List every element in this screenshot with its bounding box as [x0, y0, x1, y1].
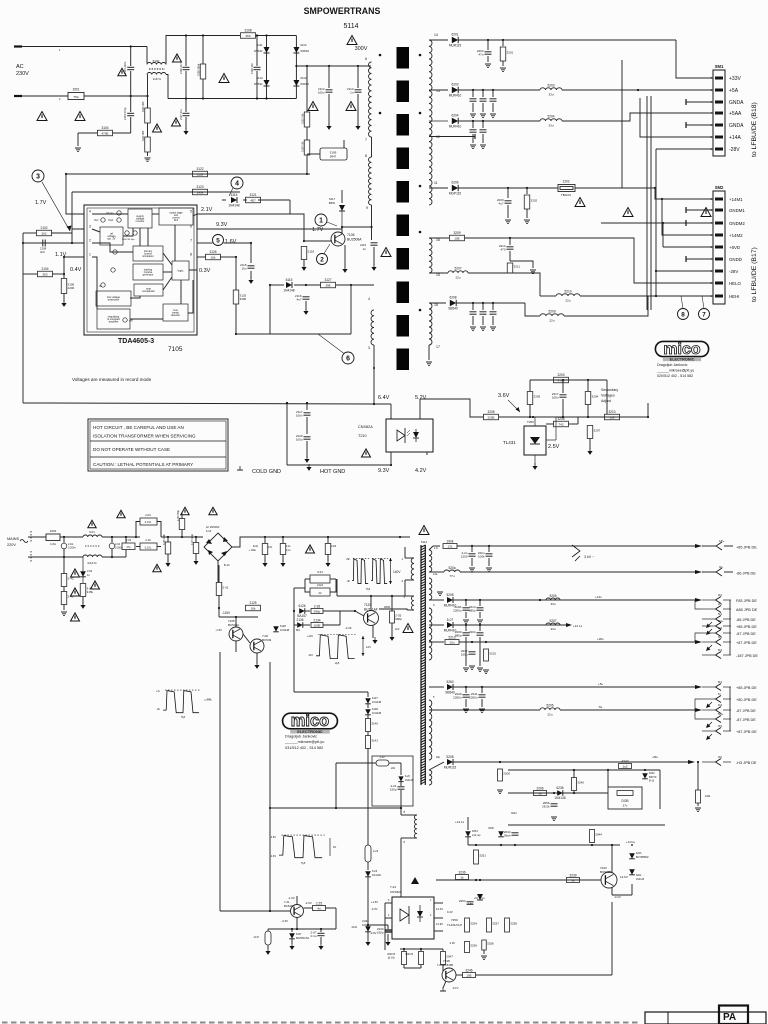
- svg-text:u/R: u/R: [129, 320, 133, 323]
- svg-text:5260: 5260: [446, 680, 453, 684]
- transformer core: [397, 47, 410, 370]
- transistor Q7248 BC547B: [442, 968, 456, 982]
- svg-text:4u: 4u: [317, 906, 321, 910]
- svg-text:3: 3: [368, 346, 370, 350]
- wire stage link: [243, 634, 250, 643]
- capacitor 2232: [465, 625, 467, 631]
- wire pin9 down: [371, 205, 373, 227]
- op-amp U7105 TDA4605 outline: [84, 205, 197, 335]
- svg-text:Hy5: Hy5: [366, 588, 371, 591]
- wire 3203 left: [529, 380, 531, 391]
- arrow 3105 gnd: [61, 300, 66, 307]
- svg-text:2-02: 2-02: [126, 538, 132, 542]
- warning triangle 2135: [403, 624, 413, 633]
- svg-text:100n: 100n: [296, 414, 303, 418]
- svg-text:-2.2F: -2.2F: [345, 626, 352, 630]
- capacitor 2117: [306, 403, 308, 410]
- wire 3105 gnd: [63, 294, 65, 303]
- diode 6123: [365, 871, 371, 877]
- warning triangle 3102: [153, 124, 162, 132]
- svg-text:1N4148: 1N4148: [228, 203, 239, 207]
- arrow 2115 gnd: [248, 277, 253, 284]
- winding b-left lower: [414, 815, 417, 838]
- svg-text:2204: 2204: [469, 630, 476, 634]
- wire bridge b out right: [232, 537, 410, 547]
- svg-text:6137: 6137: [372, 696, 378, 700]
- svg-text:-86 JPB DE: -86 JPB DE: [736, 572, 756, 576]
- svg-text:10E: 10E: [454, 236, 459, 240]
- wire mid vertical 294: [293, 588, 295, 692]
- svg-text:1N4148: 1N4148: [372, 700, 382, 704]
- resistor 2118: [303, 241, 305, 246]
- wire xrails: [161, 536, 203, 538]
- wire 18 to 5209: [525, 303, 540, 316]
- svg-text:+85 JPB DE: +85 JPB DE: [736, 625, 757, 629]
- svg-text:6137: 6137: [296, 933, 302, 936]
- svg-text:3256: 3256: [470, 944, 477, 948]
- svg-text:18: 18: [434, 303, 438, 307]
- svg-text:5209: 5209: [548, 310, 555, 314]
- capacitor 2109: [193, 543, 199, 554]
- wire rail 3122: [66, 173, 310, 175]
- arrow 2107 gnd: [183, 128, 188, 135]
- svg-text:3-05 470k: 3-05 470k: [163, 534, 166, 545]
- wire pin5 line: [197, 214, 332, 241]
- capacitor 2233: [479, 625, 481, 631]
- resistor 3125: [233, 290, 246, 304]
- bridge rectifier 6100: [204, 529, 232, 567]
- block supply voltage monitor: [128, 209, 152, 228]
- svg-text:39E: 39E: [325, 283, 330, 287]
- svg-text:140V: 140V: [393, 570, 401, 574]
- warning triangle right 1: [623, 208, 633, 217]
- svg-text:5114: 5114: [421, 540, 427, 544]
- inductor 5204: [540, 115, 562, 128]
- wire fb vertical: [611, 902, 613, 975]
- circle 2: [317, 254, 328, 265]
- node bus group2: [729, 687, 731, 731]
- svg-text:6112: 6112: [300, 76, 306, 80]
- wire b-left lower: [400, 808, 402, 815]
- diode chain 6138: [367, 704, 369, 708]
- resistor 2142: [61, 574, 74, 587]
- capacitor 2203: [487, 40, 489, 50]
- svg-text:33u: 33u: [548, 123, 553, 127]
- svg-text:3102 360: 3102 360: [142, 101, 145, 112]
- svg-text:smk rep: smk rep: [472, 834, 481, 837]
- resistor 3239: [567, 873, 580, 882]
- svg-text:5206: 5206: [546, 704, 553, 708]
- wire dob return: [508, 824, 665, 826]
- wire vertical bundle 3: [650, 96, 652, 310]
- capacitor 2044: [514, 825, 516, 831]
- svg-text:TBGXA: TBGXA: [561, 193, 571, 197]
- waveform W3: [163, 690, 201, 713]
- svg-text:1u2: 1u2: [622, 764, 627, 768]
- wire b-left top: [409, 537, 411, 558]
- svg-text:5-07: 5-07: [447, 618, 454, 622]
- wire long vertical x270: [269, 662, 271, 808]
- svg-text:-87 JPB DE: -87 JPB DE: [736, 632, 756, 636]
- wire neg rail down2: [218, 596, 220, 618]
- waveform W2: [316, 634, 357, 658]
- wire 2135 top: [391, 596, 393, 611]
- wire choke2 top out: [102, 536, 140, 538]
- svg-text:0,1SL: 0,1SL: [145, 521, 152, 524]
- wire collector to transformer: [405, 580, 408, 596]
- svg-text:22: 22: [319, 591, 322, 595]
- svg-text:5203: 5203: [547, 84, 554, 88]
- svg-text:CNX82A: CNX82A: [390, 890, 402, 894]
- svg-text:262: 262: [41, 231, 46, 235]
- svg-text:BC549: BC549: [262, 638, 272, 642]
- svg-text:VGA: VGA: [108, 219, 113, 222]
- svg-text:100u: 100u: [318, 91, 325, 95]
- wire 7106b wiring: [241, 630, 250, 643]
- wire GNDD stub: [686, 258, 713, 260]
- svg-text:100u: 100u: [296, 438, 303, 442]
- svg-text:A85 JPB DE: A85 JPB DE: [736, 608, 758, 612]
- capacitor 2113: [357, 66, 359, 88]
- wire vertical bundle 2: [646, 96, 648, 310]
- resistor 2047b: [442, 949, 444, 951]
- resistor 3105: [61, 279, 74, 294]
- svg-text:9V: 9V: [333, 845, 336, 849]
- block logic: [172, 261, 189, 280]
- wire emitter stub: [337, 246, 339, 250]
- svg-text:11: 11: [434, 181, 438, 185]
- diode 6208: [448, 296, 458, 311]
- diode chain 6137: [367, 692, 369, 697]
- wire row4 tap: [429, 624, 444, 626]
- wire aux down: [373, 345, 375, 405]
- wire mains bot b: [28, 556, 83, 558]
- svg-text:7: 7: [190, 239, 192, 243]
- svg-text:2200u: 2200u: [469, 696, 478, 700]
- svg-text:-2.9V: -2.9V: [370, 931, 377, 935]
- svg-text:2: 2: [89, 239, 91, 243]
- svg-text:1.7V: 1.7V: [312, 227, 324, 233]
- svg-text:3 kV ~: 3 kV ~: [584, 555, 594, 559]
- svg-text:10E: 10E: [705, 794, 710, 798]
- svg-text:Dragoljub Jankovic: Dragoljub Jankovic: [657, 363, 688, 367]
- capacitor 2204: [472, 90, 474, 97]
- wire pin1 line: [64, 256, 84, 258]
- resistor 3236: [456, 870, 469, 879]
- svg-text:680p: 680p: [469, 609, 476, 613]
- node bus group1: [729, 600, 731, 655]
- svg-text:6243: 6243: [636, 852, 642, 855]
- svg-text:470E: 470E: [101, 131, 108, 135]
- svg-text:2.25: 2.25: [316, 901, 322, 905]
- svg-text:0,1SL: 0,1SL: [145, 547, 152, 550]
- resistor 3110: [147, 123, 149, 137]
- wire mid link bottom: [294, 691, 368, 693]
- svg-text:CNX82A: CNX82A: [358, 425, 373, 429]
- svg-text:______mikroee@ptt.yu: ______mikroee@ptt.yu: [656, 369, 694, 373]
- svg-text:2200u: 2200u: [453, 609, 462, 613]
- connector g1 r0: [695, 600, 702, 609]
- svg-text:SM2: SM2: [715, 185, 724, 190]
- svg-text:comparator: comparator: [142, 290, 155, 293]
- wire g1 r6 link: [694, 642, 696, 655]
- svg-text:1N4148: 1N4148: [283, 288, 294, 292]
- wire 3121 to pin5 net: [289, 200, 291, 214]
- svg-text:5: 5: [216, 237, 220, 244]
- resistor 3104: [98, 126, 113, 136]
- resistor 3118: [306, 127, 308, 140]
- warning triangle opto: [362, 449, 371, 457]
- box 6124 network: [310, 575, 330, 583]
- svg-text:363: 363: [245, 34, 250, 38]
- wire HEHI: [648, 295, 713, 297]
- wire 204x rail bot: [403, 965, 405, 968]
- bracket W2: [362, 636, 364, 656]
- warning triangle 2107: [172, 118, 181, 126]
- svg-text:Hy5: Hy5: [335, 661, 340, 665]
- svg-text:6138: 6138: [372, 707, 378, 711]
- wire opto right rail: [442, 880, 444, 903]
- svg-text:-87 JPB DE: -87 JPB DE: [736, 718, 756, 722]
- wire startup chain: [306, 66, 308, 112]
- winding b-right A: [429, 550, 432, 572]
- wire +14A feed: [640, 98, 713, 137]
- svg-text:BC546C: BC546C: [228, 623, 240, 627]
- svg-text:1N4148: 1N4148: [554, 796, 565, 800]
- wire +5A rail b: [562, 89, 638, 91]
- svg-text:2-03: 2-03: [145, 513, 151, 517]
- svg-text:5-01: 5-01: [89, 530, 95, 534]
- capacitor 2106: [256, 36, 258, 67]
- warning triangle xcap3: [153, 564, 161, 572]
- resistor 3208: [484, 410, 499, 420]
- wire dob down: [645, 792, 650, 794]
- svg-text:250F: 250F: [384, 605, 391, 609]
- polarity dot sec2: [419, 112, 422, 115]
- circle 7: [699, 309, 710, 320]
- svg-text:7105: 7105: [168, 346, 183, 353]
- polarity dot sec3: [419, 185, 422, 188]
- svg-text:1F2: 1F2: [718, 627, 723, 630]
- inductor 5207: [448, 267, 468, 280]
- svg-text:22u: 22u: [455, 275, 460, 279]
- svg-text:F83 JPB DE: F83 JPB DE: [736, 599, 757, 603]
- capacitor 2107b: [320, 929, 322, 932]
- resistor 3126: [206, 250, 221, 260]
- svg-text:TL431: TL431: [503, 440, 516, 445]
- diode 2102b: [82, 557, 84, 570]
- wire top rail: [256, 35, 297, 37]
- svg-text:5F1+: 5F1+: [718, 620, 724, 623]
- wire 7243 collector: [611, 845, 613, 873]
- svg-text:BC546B: BC546B: [600, 870, 611, 874]
- svg-text:6116: 6116: [231, 193, 238, 197]
- resistor 2104: [38, 267, 53, 277]
- wire pin11 rail: [429, 187, 448, 189]
- svg-text:+1.5V: +1.5V: [371, 900, 378, 904]
- svg-text:10k: 10k: [211, 255, 216, 259]
- svg-text:620F: 620F: [488, 827, 494, 830]
- wire pin15 rail: [429, 272, 448, 274]
- svg-text:2Fh: 2Fh: [718, 756, 723, 759]
- wire collector up: [341, 190, 343, 203]
- node bridge mid right: [295, 65, 297, 67]
- winding b-left 1-2: [411, 558, 414, 580]
- warning triangle 2105: [173, 54, 182, 62]
- wire opto bottom left: [390, 452, 392, 465]
- resistor 3206: [554, 417, 569, 427]
- resistor 3258: [505, 918, 518, 932]
- svg-text:7248: 7248: [443, 959, 450, 963]
- resistor 3102: [147, 96, 149, 108]
- resistor 3112: [304, 112, 310, 127]
- svg-text:47u: 47u: [478, 53, 483, 57]
- wire row8: [453, 761, 688, 763]
- svg-text:3140: 3140: [371, 722, 378, 726]
- arrow 2119 gnd: [371, 264, 376, 271]
- svg-text:6204: 6204: [451, 114, 458, 118]
- svg-text:3F+: 3F+: [719, 566, 724, 569]
- wire -28V feed: [656, 148, 713, 150]
- arrow row2: [695, 570, 702, 574]
- wire collector rail y596: [337, 595, 408, 597]
- wire 7126 collector: [370, 596, 372, 611]
- diode 5207b: [444, 618, 457, 633]
- transformer core bottom: [420, 545, 422, 785]
- svg-text:HEHI: HEHI: [729, 294, 740, 299]
- wire pin13 rail: [429, 89, 448, 91]
- svg-text:3121: 3121: [249, 193, 256, 197]
- wire bridge right leg: [295, 36, 297, 99]
- svg-text:3209: 3209: [453, 231, 460, 235]
- wire row1: [433, 545, 440, 547]
- ground 3110: [145, 158, 151, 162]
- capacitor 2234: [471, 642, 473, 650]
- svg-text:1k: 1k: [460, 875, 464, 879]
- warning triangle opto b: [411, 877, 419, 884]
- svg-text:ELECTRONIC: ELECTRONIC: [297, 729, 323, 734]
- warning triangle 2101: [118, 68, 126, 76]
- svg-text:6206: 6206: [451, 181, 458, 185]
- inductor 5203: [540, 84, 562, 97]
- capacitor 2115: [250, 243, 252, 263]
- svg-text:3108: 3108: [244, 29, 251, 33]
- svg-text:-4.6V: -4.6V: [270, 855, 276, 858]
- resistor 2102: [37, 226, 52, 236]
- svg-text:-5s: -5s: [598, 705, 603, 709]
- capacitor 2102 X: [122, 543, 135, 550]
- inductor 5207 row2: [546, 619, 560, 631]
- wire neg rail right: [219, 616, 258, 618]
- arrow 2118 gnd: [301, 264, 306, 271]
- svg-text:HOT CIRCUIT , BE CAREFUL AND U: HOT CIRCUIT , BE CAREFUL AND USE AN: [93, 425, 184, 430]
- svg-text:15: 15: [436, 273, 440, 277]
- svg-text:8: 8: [190, 253, 192, 257]
- svg-text:Secondary: Secondary: [601, 388, 618, 392]
- block low voltage protection: [96, 291, 131, 306]
- block starting impulse generator: [133, 264, 163, 280]
- wire +6VD bracket: [663, 246, 713, 248]
- capacitor 2241: [481, 687, 483, 693]
- svg-text:BCXPB/B02: BCXPB/B02: [636, 857, 649, 859]
- svg-text:1.6V: 1.6V: [225, 239, 237, 245]
- svg-text:3F2: 3F2: [718, 636, 723, 639]
- capacitor 2248: [482, 940, 494, 950]
- svg-text:T210: T210: [358, 434, 367, 438]
- svg-text:B-10: B-10: [224, 563, 230, 567]
- svg-text:2-01: 2-01: [223, 586, 229, 590]
- svg-text:12.6V: 12.6V: [620, 875, 628, 879]
- svg-text:+12V: +12V: [307, 634, 313, 638]
- svg-text:Min: Min: [296, 628, 301, 632]
- svg-text:-115V: -115V: [222, 611, 231, 615]
- svg-text:2104 470p: 2104 470p: [123, 107, 127, 120]
- wire diode line: [222, 199, 226, 201]
- wire +33V rail: [458, 39, 676, 41]
- svg-text:3215: 3215: [489, 652, 496, 656]
- wire pin8 line: [197, 256, 206, 258]
- transistor Q7105b BC546C: [229, 627, 243, 641]
- svg-text:3127: 3127: [324, 278, 331, 282]
- svg-text:3.6V: 3.6V: [498, 393, 510, 399]
- wire 7121 collector: [296, 896, 298, 905]
- capacitor 2120: [296, 434, 311, 442]
- warning triangle cap2: [346, 102, 356, 111]
- svg-text:GNDM1: GNDM1: [729, 208, 745, 213]
- svg-text:5210: 5210: [564, 290, 571, 294]
- polarity dot sec4: [419, 231, 422, 234]
- resistor 2101b: [216, 583, 229, 596]
- optocoupler U7124 CNX82A: [392, 897, 434, 939]
- wire +5A to SM1: [638, 89, 713, 91]
- svg-text:9: 9: [366, 206, 368, 210]
- svg-text:4700: 4700: [558, 378, 565, 382]
- wire 7243 emitter: [611, 888, 613, 896]
- wire collector top: [342, 189, 372, 191]
- arrow hot gnd symbol: [306, 464, 311, 471]
- svg-text:-H3 JPB DE: -H3 JPB DE: [736, 761, 757, 765]
- svg-text:3236: 3236: [458, 870, 465, 874]
- warning triangle lower-left 1: [37, 112, 47, 121]
- wire +5A rail a: [458, 89, 540, 91]
- capacitor 2113b: [264, 537, 266, 543]
- svg-text:CAUTION : LETHAL POTENTIALS AT: CAUTION : LETHAL POTENTIALS AT PRIMARY: [93, 462, 193, 467]
- svg-text:@ 10n: @ 10n: [388, 957, 396, 960]
- AC source symbol: [20, 540, 28, 543]
- wire row2 b: [460, 571, 695, 573]
- svg-text:protection: protection: [108, 298, 120, 302]
- svg-text:6240: 6240: [649, 772, 655, 775]
- arrow TL431 gnd: [532, 463, 537, 470]
- svg-text:MUR410: MUR410: [449, 94, 462, 98]
- svg-text:AC: AC: [16, 64, 24, 70]
- svg-text:2-26: 2-26: [314, 604, 321, 608]
- svg-text:7250: 7250: [451, 918, 458, 922]
- svg-text:HI 1N5062: HI 1N5062: [206, 525, 220, 529]
- svg-text:3208: 3208: [487, 410, 494, 414]
- diode 6251: [467, 825, 469, 830]
- svg-text:3210: 3210: [608, 410, 615, 414]
- svg-text:3257: 3257: [492, 922, 499, 926]
- connector row1: [702, 545, 716, 547]
- svg-text:W06S2: W06S2: [300, 49, 309, 53]
- svg-text:HELO: HELO: [729, 281, 742, 286]
- capacitor 2216: [482, 303, 484, 310]
- svg-text:2134: 2134: [313, 618, 320, 622]
- svg-text:18: 18: [538, 791, 542, 795]
- svg-text:12a: 12a: [433, 572, 438, 576]
- wire 2103 loop: [136, 522, 140, 538]
